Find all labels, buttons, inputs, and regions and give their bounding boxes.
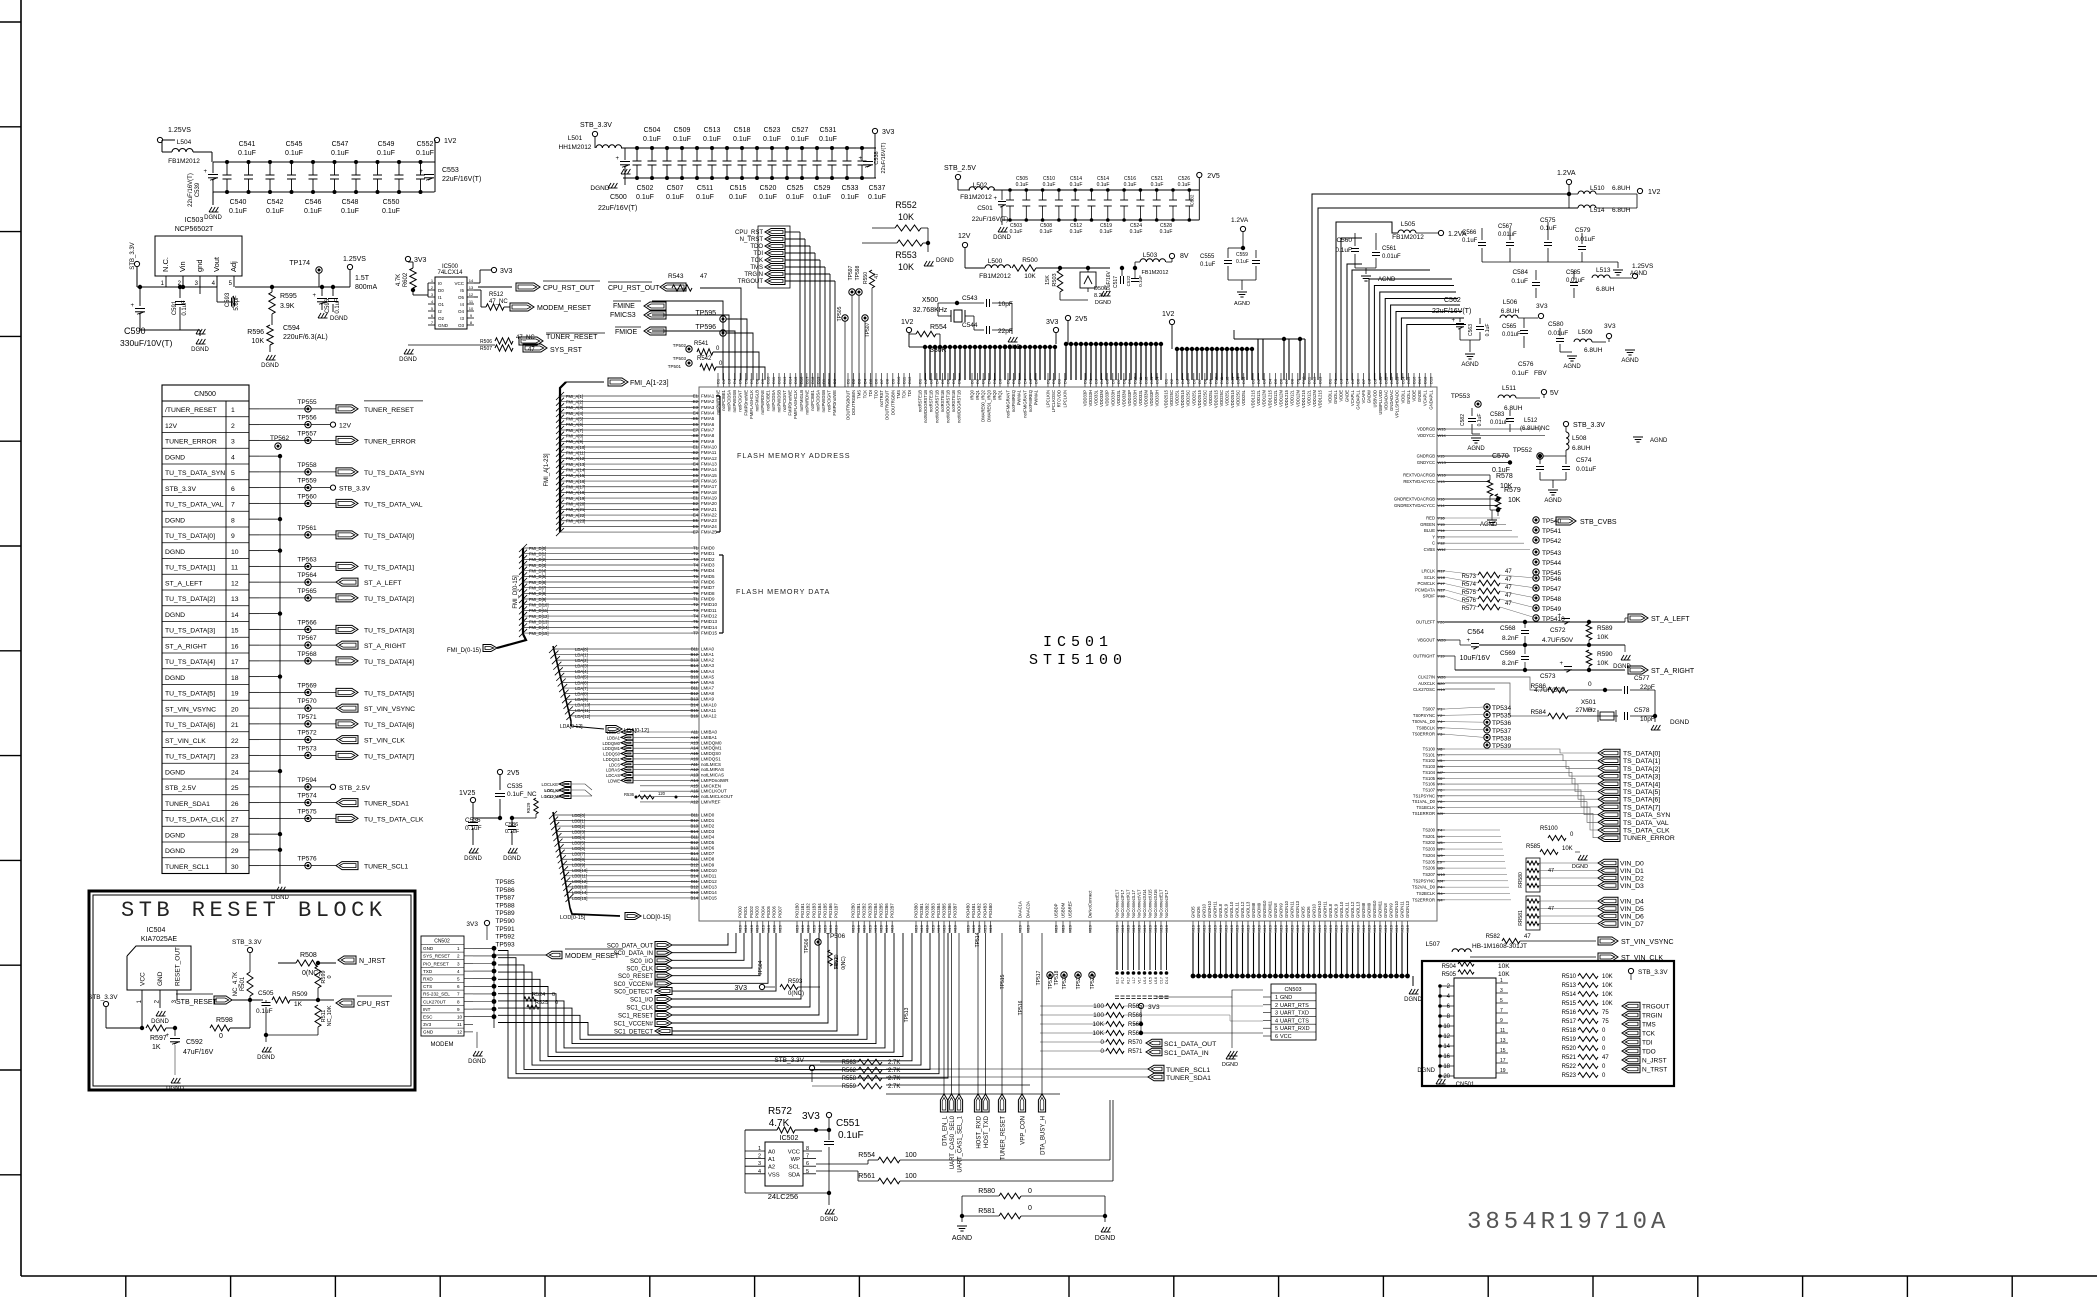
svg-text:0.01uF: 0.01uF	[1566, 278, 1585, 284]
svg-text:VDD1215: VDD1215	[1267, 389, 1272, 408]
svg-text:LMID4: LMID4	[701, 835, 715, 840]
svg-text:NCP56502T: NCP56502T	[175, 226, 214, 233]
svg-text:VPP_CON: VPP_CON	[1021, 1116, 1027, 1145]
svg-text:STB_3.3V: STB_3.3V	[1638, 969, 1668, 976]
svg-text:C550: C550	[383, 199, 400, 206]
svg-text:1K: 1K	[152, 1044, 161, 1051]
svg-text:M19: M19	[1191, 924, 1196, 933]
svg-text:D4: D4	[1180, 378, 1185, 384]
svg-text:HH1M2012: HH1M2012	[559, 144, 592, 151]
svg-text:VDDYCC: VDDYCC	[1417, 433, 1435, 438]
svg-text:+: +	[858, 156, 862, 162]
svg-text:D1: D1	[846, 378, 851, 384]
svg-text:M19: M19	[1224, 924, 1229, 933]
svg-text:E3: E3	[693, 456, 699, 461]
cn503 wires	[1124, 1005, 1263, 1007]
LOD bus	[553, 814, 691, 816]
svg-text:DGND: DGND	[1670, 719, 1689, 726]
svg-text:M19: M19	[1334, 924, 1339, 933]
svg-text:9: 9	[1500, 1018, 1503, 1024]
svg-text:M19: M19	[749, 924, 754, 933]
svg-text:TCK: TCK	[862, 390, 867, 399]
svg-text:7: 7	[1500, 1008, 1503, 1014]
svg-text:GNDL12: GNDL12	[1350, 901, 1355, 918]
svg-text:FBV: FBV	[1534, 370, 1547, 377]
svg-text:TP563: TP563	[297, 556, 317, 563]
svg-text:R509: R509	[292, 991, 308, 998]
svg-text:GND: GND	[423, 1030, 434, 1035]
svg-text:M19: M19	[1126, 924, 1131, 933]
svg-text:LDA[1]: LDA[1]	[575, 652, 588, 657]
svg-text:GNDH10: GNDH10	[1207, 900, 1212, 918]
svg-text:GNDREXTVDACYCC: GNDREXTVDACYCC	[1394, 503, 1435, 508]
svg-text:PIO3B0: PIO3B0	[914, 903, 919, 918]
svg-text:LOD[0-15]: LOD[0-15]	[643, 915, 671, 921]
svg-text:LMIDQM0: LMIDQM0	[701, 740, 722, 745]
svg-text:STB_3.3V: STB_3.3V	[130, 242, 136, 269]
svg-text:TP570: TP570	[297, 698, 317, 705]
svg-text:E6: E6	[693, 422, 699, 427]
svg-text:T9: T9	[693, 591, 699, 596]
svg-text:M19: M19	[1153, 924, 1158, 933]
svg-text:TP571: TP571	[297, 714, 317, 721]
svg-text:TS_DATA[7]: TS_DATA[7]	[1623, 804, 1660, 811]
svg-text:M19: M19	[953, 924, 958, 933]
svg-text:LDA[0]: LDA[0]	[575, 647, 588, 652]
svg-text:DGND: DGND	[261, 363, 279, 369]
svg-text:R602: R602	[403, 272, 409, 287]
svg-text:VDD25L: VDD25L	[1225, 389, 1230, 405]
svg-text:TS101: TS101	[1423, 752, 1436, 757]
svg-text:0.1uF: 0.1uF	[729, 194, 747, 201]
svg-text:0.1uF: 0.1uF	[759, 194, 777, 201]
svg-text:L9: L9	[1438, 859, 1443, 864]
svg-text:2.7K: 2.7K	[888, 1060, 900, 1066]
svg-text:AGND: AGND	[1563, 364, 1581, 370]
svg-text:TP544: TP544	[1542, 560, 1562, 567]
svg-text:STB_3.3V: STB_3.3V	[1573, 422, 1605, 429]
svg-text:1.25VS: 1.25VS	[168, 127, 191, 134]
svg-text:GNDN8: GNDN8	[1383, 903, 1388, 918]
svg-text:M19: M19	[1356, 924, 1361, 933]
svg-text:LMID7: LMID7	[701, 851, 715, 856]
svg-text:GREEN: GREEN	[1420, 522, 1435, 527]
svg-text:R574: R574	[1462, 582, 1477, 588]
svg-text:TMS: TMS	[1642, 1022, 1656, 1029]
svg-text:M19: M19	[914, 924, 919, 933]
svg-text:R536: R536	[624, 792, 635, 797]
svg-text:10K: 10K	[1597, 660, 1609, 667]
svg-text:TP586: TP586	[495, 887, 515, 894]
svg-text:notPCIDSA: notPCIDSA	[727, 390, 732, 412]
svg-text:GNDE: GNDE	[1344, 390, 1349, 402]
IC500 74LCX14 inverter	[405, 256, 410, 261]
border frame	[20, 0, 22, 1276]
svg-text:+: +	[165, 1033, 169, 1039]
svg-text:GNDH11: GNDH11	[1323, 901, 1328, 918]
svg-text:TP536: TP536	[1492, 720, 1512, 727]
svg-text:U4: U4	[1438, 834, 1444, 839]
svg-text:DGND: DGND	[590, 185, 609, 192]
svg-text:B14: B14	[691, 663, 699, 668]
svg-text:100: 100	[1093, 1012, 1104, 1019]
svg-text:0: 0	[1028, 1205, 1032, 1212]
svg-text:FMID3: FMID3	[701, 563, 715, 568]
svg-text:notPWIDSB: notPWIDSB	[821, 390, 826, 413]
svg-text:0.1uF_NC: 0.1uF_NC	[507, 791, 537, 798]
svg-text:T5: T5	[693, 568, 699, 573]
TUNER flags mid	[1148, 1065, 1164, 1073]
svg-text:FMIA21: FMIA21	[701, 507, 717, 512]
svg-text:D10: D10	[1378, 376, 1383, 384]
svg-text:U16: U16	[1154, 977, 1158, 984]
svg-text:LMID13: LMID13	[701, 884, 717, 889]
svg-text:TS_DATA[1]: TS_DATA[1]	[1623, 758, 1660, 765]
svg-text:PIO00: PIO00	[738, 905, 743, 918]
svg-text:LMIA11: LMIA11	[701, 708, 717, 713]
svg-text:C538: C538	[874, 151, 880, 164]
svg-text:V17: V17	[1138, 977, 1142, 984]
IC501 top pin rows	[717, 373, 719, 387]
svg-text:0.1uF: 0.1uF	[341, 208, 359, 215]
svg-text:2V5: 2V5	[507, 770, 520, 777]
svg-text:0.1uF: 0.1uF	[1462, 238, 1478, 244]
svg-text:30: 30	[231, 864, 239, 871]
top-middle cap bank	[592, 131, 597, 136]
svg-text:DTA_EN_L: DTA_EN_L	[943, 1115, 949, 1146]
svg-text:LDD[1]: LDD[1]	[572, 818, 585, 823]
svg-text:M19: M19	[1317, 924, 1322, 933]
svg-text:M19: M19	[1284, 924, 1289, 933]
svg-text:B12: B12	[691, 840, 699, 845]
svg-text:D1: D1	[1083, 378, 1088, 384]
svg-text:M19: M19	[879, 924, 884, 933]
svg-text:TP596: TP596	[695, 324, 716, 331]
svg-text:U7: U7	[1438, 847, 1444, 852]
svg-text:TU_TS_DATA[5]: TU_TS_DATA[5]	[165, 691, 215, 698]
svg-text:STB_3.3V: STB_3.3V	[165, 486, 196, 493]
svg-text:TP589: TP589	[495, 910, 515, 917]
svg-text:CLK27OSC: CLK27OSC	[1413, 687, 1435, 692]
svg-text:SC1_VCCEN#: SC1_VCCEN#	[614, 1022, 654, 1028]
svg-text:C593: C593	[225, 292, 231, 307]
svg-text:D8: D8	[885, 378, 890, 384]
svg-text:+: +	[1559, 661, 1563, 667]
svg-text:T3: T3	[693, 608, 699, 613]
svg-text:0.1uF: 0.1uF	[673, 136, 691, 143]
bottom vertical flags	[940, 1094, 947, 1112]
svg-text:TUNER_SDA1: TUNER_SDA1	[1166, 1075, 1211, 1082]
svg-text:1.25VS: 1.25VS	[343, 256, 366, 263]
svg-text:notPWIDSB: notPWIDSB	[732, 390, 737, 413]
svg-text:notWDOGRST1B: notWDOGRST1B	[946, 390, 951, 423]
svg-text:PIO2B5: PIO2B5	[879, 903, 884, 918]
svg-text:M19: M19	[795, 924, 800, 933]
svg-text:M19: M19	[890, 924, 895, 933]
svg-text:20: 20	[1443, 1074, 1450, 1080]
svg-text:LDWE: LDWE	[608, 778, 620, 783]
svg-text:TDO: TDO	[874, 389, 879, 399]
svg-text:FMID4: FMID4	[701, 568, 715, 573]
svg-text:NoConnectF17: NoConnectF17	[1164, 889, 1169, 918]
svg-text:10K: 10K	[1024, 273, 1036, 280]
svg-text:SCL: SCL	[789, 1165, 801, 1171]
svg-text:M19: M19	[1290, 924, 1295, 933]
svg-text:TP585: TP585	[495, 879, 515, 886]
IC U501 STI5100 outline	[699, 387, 1437, 921]
svg-text:FB1M2012: FB1M2012	[1142, 270, 1169, 276]
svg-text:U14: U14	[1143, 977, 1147, 984]
svg-text:PIO2B7: PIO2B7	[890, 903, 895, 918]
svg-text:M19: M19	[1142, 924, 1147, 933]
svg-text:LDA[2]: LDA[2]	[575, 658, 588, 663]
svg-text:+: +	[1466, 638, 1470, 644]
STB_2.5V cap bank	[955, 174, 960, 179]
svg-text:TP597: TP597	[848, 265, 854, 280]
svg-text:K17: K17	[1127, 977, 1131, 984]
svg-text:M19: M19	[811, 924, 816, 933]
svg-text:LOCLKE: LOCLKE	[541, 782, 558, 787]
svg-text:SYS_RST: SYS_RST	[550, 347, 583, 354]
svg-text:TCK: TCK	[1642, 1031, 1656, 1038]
svg-text:TS100: TS100	[1423, 747, 1436, 752]
svg-text:0.1uF: 0.1uF	[1477, 414, 1483, 427]
IC501 right pin rows	[1437, 428, 1445, 430]
svg-text:ESC: ESC	[423, 1015, 433, 1020]
svg-text:8: 8	[457, 999, 460, 1004]
svg-text:TU_TS_DATA[4]: TU_TS_DATA[4]	[165, 659, 215, 666]
svg-text:M19: M19	[867, 924, 872, 933]
svg-text:3V3: 3V3	[500, 268, 513, 275]
svg-text:0: 0	[1588, 707, 1592, 714]
svg-text:T7: T7	[693, 580, 699, 585]
svg-text:DGND: DGND	[166, 1086, 184, 1092]
svg-text:20: 20	[231, 706, 239, 713]
svg-text:1: 1	[1500, 978, 1503, 984]
svg-text:NoConnectF17: NoConnectF17	[1120, 889, 1125, 918]
svg-text:VDDE: VDDE	[1339, 390, 1344, 402]
svg-text:M19: M19	[817, 924, 822, 933]
svg-text:M19: M19	[1394, 924, 1399, 933]
svg-text:USBREF: USBREF	[1068, 901, 1073, 918]
svg-text:notRSTE1B: notRSTE1B	[951, 390, 956, 412]
svg-text:R563: R563	[842, 1060, 857, 1066]
svg-text:TU_TS_DATA[0]: TU_TS_DATA[0]	[165, 533, 215, 540]
svg-text:12V: 12V	[958, 233, 971, 240]
svg-text:M4: M4	[1438, 878, 1444, 883]
svg-text:SC1_I/O: SC1_I/O	[630, 998, 653, 1004]
svg-text:VPLLSHDADC: VPLLSHDADC	[1395, 390, 1400, 418]
svg-text:FMI_D[14]: FMI_D[14]	[529, 625, 549, 630]
svg-text:FMIFLASHCLK: FMIFLASHCLK	[793, 390, 798, 419]
svg-text:TP547: TP547	[1542, 586, 1562, 593]
svg-text:M19: M19	[930, 924, 935, 933]
svg-text:R17: R17	[1438, 569, 1446, 574]
svg-text:C500: C500	[610, 194, 627, 201]
svg-text:GNDYCC: GNDYCC	[1417, 460, 1435, 465]
svg-text:M19: M19	[1273, 924, 1278, 933]
svg-text:LDD[13]: LDD[13]	[572, 885, 587, 890]
svg-text:USBDP: USBDP	[1054, 903, 1059, 918]
svg-text:1: 1	[457, 946, 460, 951]
svg-text:HB-1M1608-301JT: HB-1M1608-301JT	[1472, 943, 1527, 950]
svg-text:C523: C523	[764, 127, 781, 134]
svg-text:0.1uF: 0.1uF	[696, 194, 714, 201]
svg-text:D2: D2	[1169, 378, 1174, 384]
svg-text:0.1uF: 0.1uF	[1236, 259, 1249, 265]
svg-text:TP535: TP535	[1492, 713, 1512, 720]
svg-text:D3: D3	[1057, 378, 1062, 384]
svg-text:VDD1215: VDD1215	[1301, 389, 1306, 408]
svg-text:R596: R596	[247, 329, 264, 336]
svg-text:ST_A_RIGHT: ST_A_RIGHT	[165, 643, 207, 650]
svg-text:notPCIBE1: notPCIBE1	[721, 389, 726, 410]
svg-text:M19: M19	[1131, 924, 1136, 933]
svg-text:10K: 10K	[1508, 497, 1521, 504]
svg-text:INT: INT	[423, 1007, 431, 1012]
svg-text:VDD2515: VDD2515	[1180, 389, 1185, 408]
svg-text:M19: M19	[851, 924, 856, 933]
svg-text:V7: V7	[1438, 752, 1444, 757]
svg-text:FMID0: FMID0	[701, 546, 715, 551]
svg-text:TDO: TDO	[750, 244, 763, 250]
svg-text:LMIA9: LMIA9	[701, 697, 715, 702]
svg-text:NC_4.7K: NC_4.7K	[233, 972, 239, 996]
svg-text:R577: R577	[1462, 606, 1477, 612]
svg-text:2: 2	[457, 954, 460, 959]
svg-text:FMI_A[9]: FMI_A[9]	[566, 439, 583, 444]
svg-text:GNDH10: GNDH10	[1317, 900, 1322, 918]
svg-text:E2: E2	[693, 450, 699, 455]
svg-text:M19: M19	[977, 924, 982, 933]
svg-text:3: 3	[457, 961, 460, 966]
svg-text:M19: M19	[1372, 924, 1377, 933]
svg-text:D1: D1	[918, 378, 923, 384]
svg-text:PIO3B6: PIO3B6	[947, 903, 952, 918]
svg-text:A11: A11	[691, 762, 699, 767]
svg-text:TS_DATA_CLK: TS_DATA_CLK	[1623, 828, 1670, 835]
svg-text:M19: M19	[800, 924, 805, 933]
svg-text:29: 29	[231, 848, 239, 855]
IC501 bottom pin rows	[739, 921, 741, 933]
svg-text:TUNER_ERROR: TUNER_ERROR	[1623, 835, 1675, 842]
svg-text:GNDL11: GNDL11	[1235, 901, 1240, 918]
svg-text:M19: M19	[1389, 924, 1394, 933]
svg-text:C573: C573	[1540, 673, 1556, 680]
svg-text:TP598: TP598	[855, 265, 861, 280]
svg-text:R585: R585	[1526, 844, 1541, 850]
svg-text:C544: C544	[962, 322, 978, 329]
svg-text:FMID10: FMID10	[701, 602, 718, 607]
svg-text:FMICS3: FMICS3	[610, 312, 636, 319]
svg-text:TU_TS_DATA[3]: TU_TS_DATA[3]	[165, 628, 215, 635]
svg-text:TS206: TS206	[1423, 866, 1436, 871]
bottom gnd dgnd	[1412, 976, 1414, 986]
svg-text:PIO3B1: PIO3B1	[919, 903, 924, 918]
svg-text:VDD25C: VDD25C	[1236, 390, 1241, 407]
svg-text:gnd: gnd	[195, 259, 204, 272]
svg-text:Adj: Adj	[229, 261, 238, 272]
svg-text:FMI_A[7]: FMI_A[7]	[566, 428, 583, 433]
svg-text:DGND: DGND	[151, 1019, 169, 1025]
svg-text:15: 15	[1500, 1048, 1506, 1054]
svg-text:AGND: AGND	[1650, 438, 1668, 444]
svg-text:FMIA24: FMIA24	[701, 524, 717, 529]
svg-text:B12: B12	[691, 818, 699, 823]
svg-text:VCC: VCC	[788, 1150, 800, 1156]
svg-text:Y4: Y4	[1438, 719, 1444, 724]
svg-text:A16: A16	[691, 756, 699, 761]
svg-text:GNDM8: GNDM8	[1361, 902, 1366, 918]
svg-text:I0: I0	[438, 281, 442, 286]
svg-text:0.1uF: 0.1uF	[643, 136, 661, 143]
svg-text:USBVDD: USBVDD	[1372, 390, 1377, 407]
svg-text:LMIA8: LMIA8	[701, 691, 715, 696]
svg-text:0: 0	[1028, 1188, 1032, 1195]
svg-text:2: 2	[1275, 1003, 1278, 1009]
svg-text:D2: D2	[721, 378, 726, 384]
svg-text:M19: M19	[1323, 924, 1328, 933]
svg-text:IRQ1: IRQ1	[975, 389, 980, 399]
svg-text:R590: R590	[1597, 651, 1613, 658]
svg-text:SC0_RESET: SC0_RESET	[618, 974, 653, 980]
svg-text:T6: T6	[693, 574, 699, 579]
svg-text:VDD1215: VDD1215	[1284, 389, 1289, 408]
svg-text:12: 12	[1443, 1034, 1450, 1040]
svg-text:8: 8	[231, 517, 235, 524]
svg-text:E2: E2	[693, 399, 699, 404]
svg-text:TP556: TP556	[297, 415, 317, 422]
svg-text:M19: M19	[1378, 924, 1383, 933]
svg-text:C584: C584	[1512, 269, 1528, 276]
svg-text:VIN_D3: VIN_D3	[1620, 883, 1644, 890]
svg-text:LMICKEN: LMICKEN	[701, 783, 721, 788]
svg-text:LMICLKOUT: LMICLKOUT	[701, 789, 727, 794]
svg-text:LRCLK: LRCLK	[1422, 569, 1436, 574]
svg-text:VDDRGB: VDDRGB	[1417, 427, 1435, 432]
svg-text:12V: 12V	[165, 423, 178, 430]
svg-text:P17: P17	[1438, 581, 1446, 586]
svg-text:TP558: TP558	[297, 462, 317, 469]
svg-text:TS1VAL_D0: TS1VAL_D0	[1412, 799, 1436, 804]
svg-text:16: 16	[1443, 1054, 1450, 1060]
svg-text:M19: M19	[856, 924, 861, 933]
svg-text:R573: R573	[1462, 574, 1477, 580]
svg-text:M19: M19	[1361, 924, 1366, 933]
svg-text:TP561: TP561	[297, 525, 317, 532]
svg-text:TP559: TP559	[297, 478, 317, 485]
svg-text:PIO3B4: PIO3B4	[936, 903, 941, 918]
svg-text:+: +	[1557, 613, 1561, 619]
svg-text:TS_DATA_VAL: TS_DATA_VAL	[1623, 820, 1669, 827]
svg-text:E5: E5	[693, 416, 699, 421]
svg-text:B13: B13	[691, 697, 699, 702]
svg-text:100: 100	[1093, 1003, 1104, 1010]
svg-text:C539: C539	[195, 182, 201, 197]
svg-text:M19: M19	[1159, 924, 1164, 933]
svg-text:UART_RTS: UART_RTS	[1280, 1003, 1309, 1009]
svg-text:AGND: AGND	[1621, 358, 1639, 364]
top-left cap bank C539-C553	[157, 137, 162, 142]
svg-text:PIO_RESET: PIO_RESET	[423, 961, 449, 966]
svg-text:R512: R512	[489, 292, 504, 298]
svg-text:TP174: TP174	[289, 260, 310, 267]
svg-text:M19: M19	[1367, 924, 1372, 933]
svg-text:R589: R589	[1597, 625, 1613, 632]
svg-text:R595: R595	[280, 293, 297, 300]
svg-text:+: +	[312, 293, 316, 299]
svg-text:NoConnectE17: NoConnectE17	[1159, 889, 1164, 918]
